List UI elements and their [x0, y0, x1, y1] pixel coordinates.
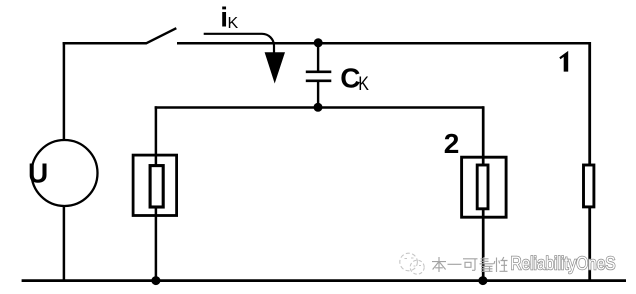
- svg-text:K: K: [358, 72, 369, 94]
- svg-text:K: K: [228, 15, 239, 32]
- svg-text:2: 2: [444, 128, 460, 159]
- svg-text:U: U: [28, 157, 48, 188]
- svg-text:ReliabilityOneS: ReliabilityOneS: [511, 254, 616, 274]
